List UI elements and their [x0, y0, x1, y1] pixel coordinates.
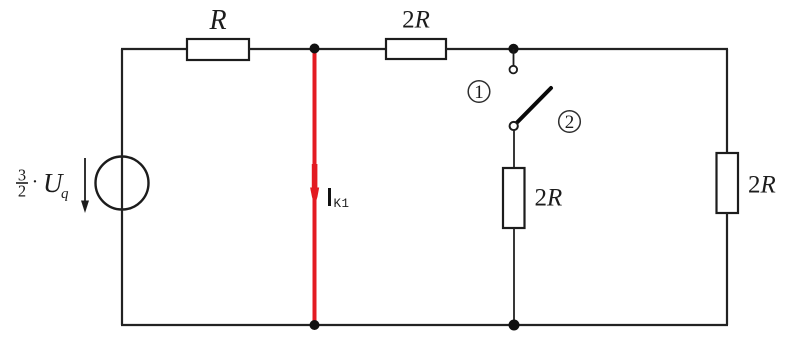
resistor 2R (right): [717, 153, 776, 213]
wire: right branch upper: [726, 49, 728, 153]
wire: switch pivot to 2R (middle): [513, 130, 515, 168]
node: bottom of K1 branch: [310, 320, 320, 330]
svg-text:·: ·: [32, 171, 39, 193]
svg-text:K1: K1: [334, 197, 350, 211]
node: middle branch bottom: [509, 320, 520, 331]
svg-text:2: 2: [18, 182, 26, 201]
current label IK1: [328, 188, 350, 211]
value label: 3/2 * Uq: [16, 166, 69, 203]
wire: 2R (middle) to bottom node: [513, 228, 515, 325]
wire: top-left horizontal segment: [121, 48, 188, 50]
resistor 2R (middle): [503, 168, 562, 228]
switch contact 1 (open terminal circle): [510, 66, 518, 74]
svg-text:2R: 2R: [748, 172, 776, 199]
wire: bottom horizontal: [121, 324, 728, 326]
resistor R: [187, 5, 249, 60]
wire: switch node to top-right corner: [514, 48, 728, 50]
position label 1 (circled): [468, 81, 490, 103]
svg-text:2R: 2R: [402, 7, 430, 34]
resistor 2R (top): [386, 7, 446, 60]
switch blade (open, thrown toward position 2): [517, 88, 551, 123]
position label 2 (circled): [559, 111, 581, 133]
arrow: source voltage direction: [81, 158, 89, 213]
node: top of K1 branch: [310, 44, 320, 54]
svg-text:1: 1: [474, 82, 484, 103]
voltage source U1 (circle symbol): [96, 157, 149, 210]
arrow: current IK1 direction (red arrowhead with bulged shaft): [310, 164, 319, 206]
switch pivot (open terminal circle): [510, 122, 518, 130]
wire: R to node K1 top: [249, 48, 386, 50]
wire: stub from node to switch contact 1: [513, 49, 515, 66]
node: switch top connection: [508, 44, 518, 54]
svg-text:q: q: [61, 186, 69, 202]
wire: 2R to switch node: [446, 48, 514, 50]
svg-text:2: 2: [565, 112, 575, 133]
svg-text:R: R: [208, 5, 226, 36]
wire: right branch lower: [726, 213, 728, 325]
svg-text:2R: 2R: [535, 185, 563, 212]
wire: left branch vertical: [121, 49, 123, 325]
wire: short-circuit branch K1 (red): [313, 48, 317, 325]
